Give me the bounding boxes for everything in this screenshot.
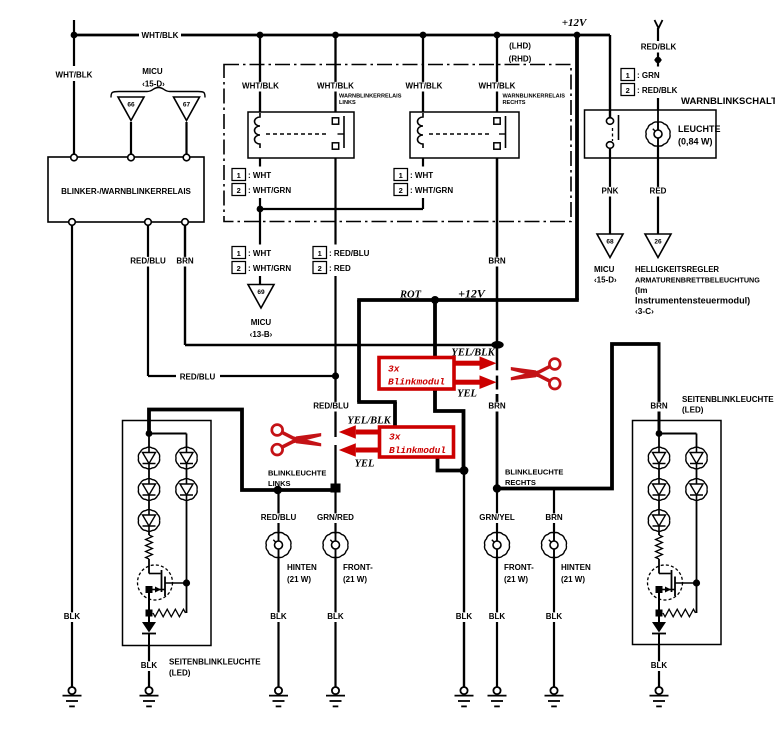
svg-text:: RED/BLU: : RED/BLU <box>329 249 370 258</box>
svg-text:YEL: YEL <box>457 389 477 400</box>
svg-text:2: 2 <box>626 86 630 95</box>
svg-text:RED/BLK: RED/BLK <box>641 43 677 52</box>
svg-text:(LED): (LED) <box>169 669 191 678</box>
svg-text:: GRN: : GRN <box>637 71 660 80</box>
svg-text:1: 1 <box>626 71 630 80</box>
svg-text:BLINKER-/WARNBLINKERRELAIS: BLINKER-/WARNBLINKERRELAIS <box>61 187 191 196</box>
svg-text:(RHD): (RHD) <box>509 55 532 64</box>
svg-text:(LED): (LED) <box>682 406 704 415</box>
svg-text:BLK: BLK <box>546 612 563 621</box>
svg-text:1: 1 <box>237 249 241 258</box>
svg-text:67: 67 <box>183 102 191 109</box>
svg-text:ROT: ROT <box>399 290 422 301</box>
svg-text:BLK: BLK <box>456 612 473 621</box>
svg-text:HELLIGKEITSREGLER: HELLIGKEITSREGLER <box>635 265 719 274</box>
svg-text:(21 W): (21 W) <box>287 575 311 584</box>
svg-text:1: 1 <box>318 249 322 258</box>
svg-text:RED/BLU: RED/BLU <box>313 402 349 411</box>
svg-text:LINKS: LINKS <box>268 479 291 488</box>
svg-text:BLINKLEUCHTE: BLINKLEUCHTE <box>268 469 326 478</box>
svg-text:2: 2 <box>237 186 241 195</box>
svg-text:MICU: MICU <box>594 265 615 274</box>
svg-text:: WHT/GRN: : WHT/GRN <box>410 186 453 195</box>
svg-text:2: 2 <box>399 186 403 195</box>
svg-text:1: 1 <box>399 171 403 180</box>
svg-text:(21 W): (21 W) <box>504 575 528 584</box>
svg-text:: RED/BLK: : RED/BLK <box>637 86 678 95</box>
svg-text:: RED: : RED <box>329 264 351 273</box>
svg-text:BLK: BLK <box>489 612 506 621</box>
svg-text:: WHT: : WHT <box>248 171 271 180</box>
svg-text:RECHTS: RECHTS <box>505 478 536 487</box>
svg-text:WHT/BLK: WHT/BLK <box>479 82 516 91</box>
svg-text:Instrumentensteuermodul): Instrumentensteuermodul) <box>635 296 750 306</box>
svg-text:WHT/BLK: WHT/BLK <box>317 82 354 91</box>
svg-text:GRN/RED: GRN/RED <box>317 513 354 522</box>
svg-text:BLK: BLK <box>651 661 668 670</box>
svg-text:BRN: BRN <box>488 402 506 411</box>
svg-text:(21 W): (21 W) <box>561 575 585 584</box>
svg-text:WHT/BLK: WHT/BLK <box>406 82 443 91</box>
svg-text:MICU: MICU <box>142 67 163 76</box>
svg-text:BRN: BRN <box>650 402 668 411</box>
svg-text:2: 2 <box>237 264 241 273</box>
svg-text:WARNBLINKSCHALTER: WARNBLINKSCHALTER <box>681 96 775 107</box>
svg-text:RED/BLU: RED/BLU <box>261 513 297 522</box>
svg-text:WHT/BLK: WHT/BLK <box>242 82 279 91</box>
svg-text:‹15-D›: ‹15-D› <box>142 80 165 89</box>
svg-text:FRONT-: FRONT- <box>343 563 373 572</box>
svg-text:(LHD): (LHD) <box>509 42 531 51</box>
svg-text:+12V: +12V <box>562 17 588 29</box>
svg-text:BLINKLEUCHTE: BLINKLEUCHTE <box>505 468 563 477</box>
svg-text:WHT/BLK: WHT/BLK <box>56 71 93 80</box>
svg-text:BRN: BRN <box>176 257 194 266</box>
svg-text:FRONT-: FRONT- <box>504 563 534 572</box>
svg-text:GRN/YEL: GRN/YEL <box>479 513 515 522</box>
svg-text:: WHT: : WHT <box>248 249 271 258</box>
svg-text:1: 1 <box>237 171 241 180</box>
svg-text:BRN: BRN <box>545 513 563 522</box>
svg-text:HINTEN: HINTEN <box>561 563 591 572</box>
svg-text:(21 W): (21 W) <box>343 575 367 584</box>
svg-text:: WHT: : WHT <box>410 171 433 180</box>
svg-text:YEL/BLK: YEL/BLK <box>451 348 495 359</box>
svg-text:BLK: BLK <box>141 661 158 670</box>
svg-text:HINTEN: HINTEN <box>287 563 317 572</box>
svg-text:RED/BLU: RED/BLU <box>130 257 166 266</box>
svg-text:3x: 3x <box>388 364 400 375</box>
svg-text:‹3-C›: ‹3-C› <box>635 306 654 316</box>
svg-text:26: 26 <box>654 239 662 246</box>
svg-text:LEUCHTE: LEUCHTE <box>678 124 721 134</box>
svg-text:ARMATURENBRETTBELEUCHTUNG: ARMATURENBRETTBELEUCHTUNG <box>635 276 760 285</box>
svg-text:‹15-D›: ‹15-D› <box>594 276 617 285</box>
svg-text:BLK: BLK <box>327 612 344 621</box>
svg-text:Blinkmodul: Blinkmodul <box>388 377 445 388</box>
svg-text:BRN: BRN <box>488 257 506 266</box>
svg-text:66: 66 <box>127 102 135 109</box>
svg-text:BLK: BLK <box>270 612 287 621</box>
svg-text:BLK: BLK <box>64 612 81 621</box>
svg-text:YEL: YEL <box>355 459 375 470</box>
svg-text:WARNBLINKERRELAIS: WARNBLINKERRELAIS <box>339 94 402 100</box>
svg-text:WHT/BLK: WHT/BLK <box>142 31 179 40</box>
svg-text:68: 68 <box>606 239 614 246</box>
svg-text:: WHT/GRN: : WHT/GRN <box>248 186 291 195</box>
svg-text:(0,84 W): (0,84 W) <box>678 137 713 147</box>
svg-text:RED: RED <box>650 187 667 196</box>
svg-text:RECHTS: RECHTS <box>503 100 526 106</box>
svg-text:PNK: PNK <box>602 187 619 196</box>
svg-text:WARNBLINKERRELAIS: WARNBLINKERRELAIS <box>503 94 566 100</box>
svg-text:RED/BLU: RED/BLU <box>180 373 216 382</box>
svg-text:YEL/BLK: YEL/BLK <box>347 416 391 427</box>
svg-text:3x: 3x <box>389 432 401 443</box>
svg-text:SEITENBLINKLEUCHTE: SEITENBLINKLEUCHTE <box>682 395 774 404</box>
svg-text:(Im: (Im <box>635 285 647 295</box>
svg-text:SEITENBLINKLEUCHTE: SEITENBLINKLEUCHTE <box>169 658 261 667</box>
svg-text:+12V: +12V <box>458 287 486 301</box>
svg-text:69: 69 <box>257 289 265 296</box>
svg-text:MICU: MICU <box>251 318 272 327</box>
svg-text:LINKS: LINKS <box>339 100 356 106</box>
svg-text:2: 2 <box>318 264 322 273</box>
svg-text:Blinkmodul: Blinkmodul <box>389 445 446 456</box>
svg-text:: WHT/GRN: : WHT/GRN <box>248 264 291 273</box>
svg-text:‹13-B›: ‹13-B› <box>250 330 273 339</box>
